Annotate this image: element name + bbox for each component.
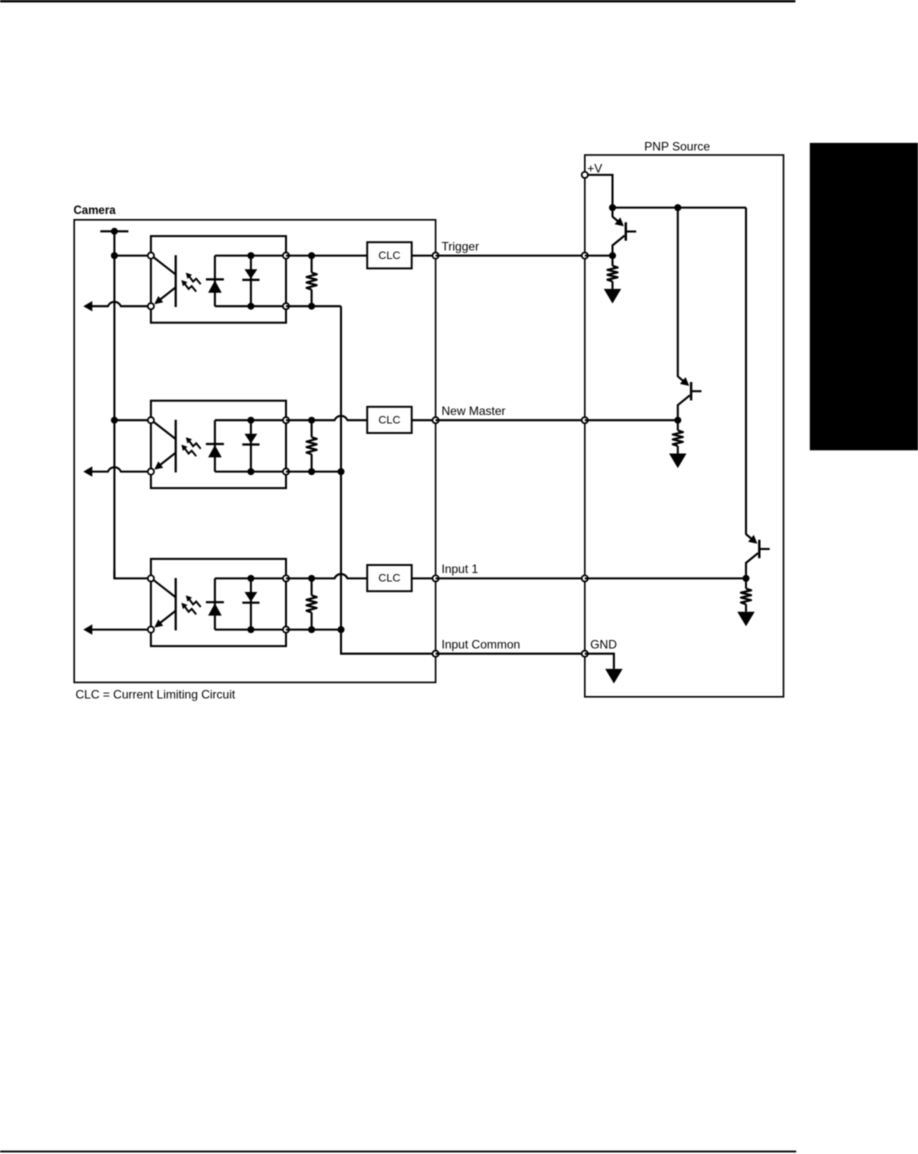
transistor Q2 base lead [691, 390, 701, 392]
wire: GND stub [585, 654, 614, 669]
diode cell frame inside U1 [215, 256, 286, 307]
PNP Source enclosure box [585, 155, 784, 697]
resistor R6 [745, 578, 747, 588]
wire: New Master line to PNP source [436, 419, 585, 421]
svg-text:PNP Source: PNP Source [644, 139, 710, 153]
wire: U1 output to resistor R1 node [286, 255, 313, 257]
svg-text:Input Common: Input Common [442, 638, 521, 652]
diode cell frame inside U3 [215, 578, 286, 629]
wire: left input rail (vertical) [113, 231, 115, 578]
arrowhead: off-page lead row 1 [83, 301, 92, 311]
junction: Q2 collector node [674, 417, 681, 424]
ground symbol below R5 [669, 454, 686, 469]
phototransistor of U1: base bar [175, 255, 177, 307]
junction: R3 bottom [308, 626, 315, 633]
rail top tick bar [100, 230, 128, 232]
ground symbol at GND [605, 669, 622, 684]
terminal: PNP New Master pin [582, 417, 588, 423]
junction: Q3 collector node [743, 575, 750, 582]
wire: Trigger line to PNP source [436, 255, 585, 257]
junction: common bus row 3 [338, 626, 345, 633]
camera enclosure box [74, 220, 435, 683]
LED D3a cathode bar [206, 601, 224, 603]
junction: R2 bottom [308, 468, 315, 475]
wire: emitter drop to Q2 [677, 208, 679, 377]
page bottom rule [0, 1151, 796, 1153]
wire: U2 return to common bus [286, 471, 341, 473]
transistor Q3 (PNP) emitter [746, 534, 754, 541]
svg-text:Trigger: Trigger [442, 239, 480, 253]
transistor Q1 emitter arrowhead [615, 217, 624, 226]
page top rule [0, 0, 795, 2]
transistor Q1 base bar [625, 222, 627, 240]
diode D2b triangle [245, 434, 258, 444]
transistor Q2 (PNP) emitter [678, 376, 686, 383]
ground symbol below R4 [604, 289, 621, 304]
svg-text:Camera: Camera [74, 205, 117, 217]
phototransistor of U3: collector [154, 580, 176, 597]
transistor Q1 collector [613, 236, 625, 256]
transistor Q2 collector [678, 395, 690, 420]
junction: R2 top [308, 417, 315, 424]
junction: common bus row 2 [338, 468, 345, 475]
transistor Q3 emitter arrowhead [748, 535, 757, 544]
LED D2a triangle [208, 445, 222, 457]
resistor R3 [311, 578, 313, 595]
diode D3b triangle [245, 592, 258, 602]
wire: CLC block 1 to camera edge [412, 255, 436, 257]
terminal: camera Trigger pin [433, 253, 439, 259]
light arrow 1 of U3 [189, 599, 201, 607]
wire: U3 return to common bus [286, 629, 341, 631]
light arrow 2 of U2 [184, 448, 196, 456]
wire: rail to opto U1 anode [114, 255, 150, 257]
terminal: U3 pin bottom-left [148, 627, 154, 633]
junction: R1 bottom [308, 303, 315, 310]
transistor Q2 base bar [690, 382, 692, 400]
LED D1a cathode bar [206, 278, 224, 280]
transistor Q3 base lead [759, 548, 769, 550]
svg-text:Input 1: Input 1 [442, 562, 479, 576]
diode D3b vertical wire [250, 578, 252, 629]
opto-isolator U2 body [151, 401, 286, 488]
terminal: camera Input Common pin [433, 651, 439, 657]
phototransistor of U1: emitter arrowhead [154, 296, 163, 304]
opto-isolator U1 body [151, 236, 286, 323]
wire: rail corner into opto U3 [114, 570, 150, 578]
light arrow 1 of U2 [189, 441, 201, 449]
terminal: U2 pin top-right [283, 417, 289, 423]
CLC block 1 [367, 242, 412, 268]
junction: D1b top [247, 252, 254, 259]
wire: R1 node to CLC block 1 [312, 255, 368, 257]
wire: Trigger inside PNP box [585, 255, 613, 257]
wire: U3 output to resistor R3 node [286, 577, 313, 579]
phototransistor of U3: emitter [156, 611, 176, 627]
junction: D1b bottom [247, 303, 254, 310]
phototransistor of U2: collector [154, 422, 176, 439]
terminal: PNP Trigger pin [582, 253, 588, 259]
terminal: U2 pin top-left [148, 417, 154, 423]
wire: external input lead row 2 (to off-page) [91, 467, 151, 471]
terminal: U1 pin bottom-left [148, 303, 154, 309]
ground symbol below R6 [737, 612, 754, 627]
diode D1b cathode bar [242, 279, 259, 281]
opto-isolator U3 body [151, 559, 286, 646]
resistor R4 [611, 256, 613, 266]
wire: emitter drop to Q3 [745, 208, 747, 535]
wire: CLC block 3 to camera edge [412, 577, 436, 579]
wire: input common bus to camera edge [340, 653, 436, 655]
svg-text:CLC: CLC [378, 573, 400, 585]
junction: rail row 2 [111, 417, 118, 424]
svg-text:+V: +V [587, 161, 602, 175]
terminal: camera Input 1 pin [433, 575, 439, 581]
LED D2a cathode bar [206, 443, 224, 445]
junction: Q1 collector node [609, 252, 616, 259]
wire: New Master inside PNP box [585, 419, 678, 421]
wire: U1 return to common bus [286, 305, 341, 307]
wire: input common bus (vertical) [340, 306, 342, 654]
terminal: camera New Master pin [433, 417, 439, 423]
terminal: U1 pin bottom-right [283, 303, 289, 309]
phototransistor of U3: emitter arrowhead [154, 619, 163, 627]
phototransistor of U2: emitter [156, 453, 176, 469]
terminal: U3 pin bottom-right [283, 627, 289, 633]
svg-text:CLC = Current Limiting Circuit: CLC = Current Limiting Circuit [76, 687, 236, 701]
wire: external input lead row 1 (to off-page) [91, 302, 151, 306]
wire: +V rail horizontal [613, 207, 747, 209]
junction: R3 top [308, 575, 315, 582]
CLC block 2 [367, 407, 412, 433]
wire: CLC block 2 to camera edge [412, 419, 436, 421]
transistor Q1 base lead [626, 230, 636, 232]
terminal: PNP GND pin [582, 651, 588, 657]
junction: rail row 1 [111, 252, 118, 259]
wire: R2 node to CLC block 2 [312, 416, 368, 420]
diode D1b vertical wire [250, 256, 252, 307]
wire: Input Common to PNP source [436, 653, 585, 655]
LED D1a triangle [208, 280, 222, 292]
wire: emitter drop to Q1 [611, 208, 613, 217]
wire: Input 1 inside PNP box [585, 577, 746, 579]
diode cell frame inside U2 [215, 420, 286, 471]
diode D2b cathode bar [242, 443, 259, 445]
light arrow 1 of U1 [189, 276, 201, 284]
light arrow 2 of U1 [184, 283, 196, 291]
diode D1b triangle [245, 269, 258, 279]
junction: R1 top [308, 252, 315, 259]
diode D2b vertical wire [250, 420, 252, 471]
svg-text:New Master: New Master [442, 404, 506, 418]
svg-text:GND: GND [590, 638, 617, 652]
CLC block 3 [367, 565, 412, 591]
junction: D3b top [247, 575, 254, 582]
phototransistor of U1: emitter [156, 287, 176, 303]
phototransistor of U1: collector [154, 257, 176, 274]
terminal: U2 pin bottom-left [148, 469, 154, 475]
wire: Input 1 line to PNP source [436, 577, 585, 579]
terminal: PNP Input 1 pin [582, 575, 588, 581]
resistor R1 [311, 256, 313, 273]
arrowhead: off-page lead row 3 [83, 624, 92, 634]
wire: U2 output to resistor R2 node [286, 419, 313, 421]
resistor R5 [677, 420, 679, 430]
terminal: U1 pin top-right [283, 253, 289, 259]
svg-text:CLC: CLC [378, 250, 400, 262]
phototransistor of U2: base bar [175, 420, 177, 473]
LED D3a triangle [208, 603, 222, 615]
terminal: U1 pin top-left [148, 253, 154, 259]
phototransistor of U2: emitter arrowhead [154, 461, 163, 469]
phototransistor of U3: base bar [175, 578, 177, 630]
transistor Q3 collector [746, 553, 758, 578]
black sidebar tab [810, 143, 918, 450]
terminal: U2 pin bottom-right [283, 469, 289, 475]
arrowhead: off-page lead row 2 [83, 466, 92, 476]
transistor Q3 base bar [758, 540, 760, 558]
wire: rail to opto U2 anode [114, 419, 150, 421]
junction: rail at Q2 [674, 204, 681, 211]
junction: rail top [111, 228, 118, 235]
light arrow 2 of U3 [184, 606, 196, 614]
diode D3b cathode bar [242, 602, 259, 604]
wire: +V feed [585, 175, 613, 208]
transistor Q2 emitter arrowhead [680, 377, 689, 386]
junction: D2b bottom [247, 468, 254, 475]
terminal: U3 pin top-left [148, 575, 154, 581]
junction: D2b top [247, 417, 254, 424]
terminal: U3 pin top-right [283, 575, 289, 581]
wire: R3 node to CLC block 3 [312, 574, 368, 578]
svg-text:CLC: CLC [378, 414, 400, 426]
resistor R2 [311, 420, 313, 437]
wire: external input lead row 3 (to off-page) [91, 629, 151, 631]
transistor Q1 (PNP) emitter [613, 217, 621, 224]
junction: rail at Q1 [609, 204, 616, 211]
junction: D3b bottom [247, 626, 254, 633]
